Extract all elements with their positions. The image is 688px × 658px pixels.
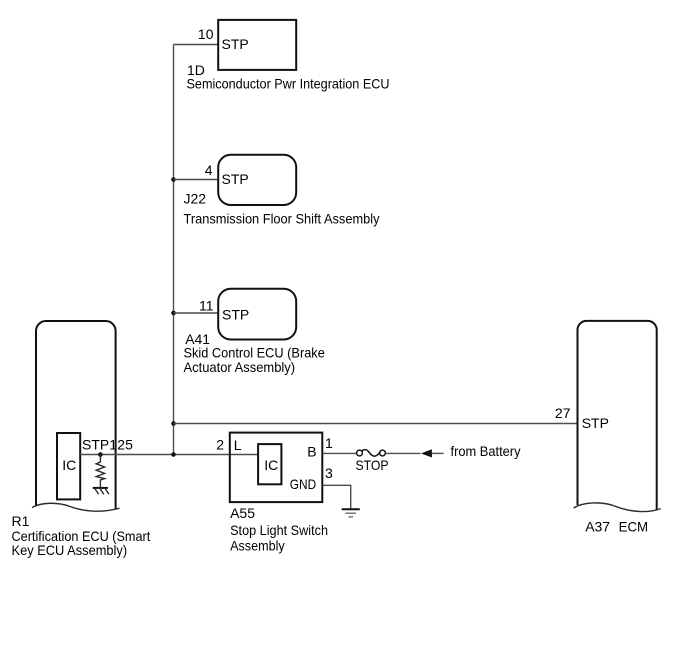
ECU block A41 Skid Control ECU (184, 289, 325, 375)
junction node bus to main wire (171, 452, 176, 457)
svg-text:4: 4 (205, 162, 213, 178)
svg-text:STP1: STP1 (82, 437, 117, 453)
svg-text:2: 2 (216, 436, 224, 452)
wire GND pin 3 to earth ground (322, 485, 350, 508)
IC block inside A55 (258, 444, 281, 484)
svg-text:1: 1 (325, 435, 333, 451)
junction node resistor tap (98, 452, 103, 457)
wire vertical STP bus (173, 45, 175, 455)
svg-text:from Battery: from Battery (451, 443, 521, 459)
svg-text:Assembly: Assembly (230, 537, 285, 553)
svg-text:27: 27 (555, 405, 571, 421)
wire to 1D pin 10 (174, 44, 219, 46)
svg-text:STP: STP (222, 36, 249, 52)
wire fuse to battery arrow (386, 452, 421, 454)
svg-text:Key ECU Assembly): Key ECU Assembly) (12, 542, 128, 558)
switch block A55 Stop Light Switch Assembly (216, 433, 333, 554)
svg-text:J22: J22 (184, 190, 207, 206)
svg-text:A37: A37 (585, 519, 610, 535)
ECU block R1 Certification ECU outline (12, 321, 151, 558)
IC block inside R1 (57, 433, 80, 499)
svg-text:STOP: STOP (356, 457, 389, 473)
svg-text:A55: A55 (230, 505, 255, 521)
svg-text:STP: STP (582, 415, 609, 431)
svg-text:25: 25 (117, 437, 133, 453)
svg-text:Stop Light Switch: Stop Light Switch (230, 522, 328, 538)
resistor internal pull-down in R1 (96, 455, 104, 488)
svg-text:Semiconductor Pwr Integration: Semiconductor Pwr Integration ECU (187, 76, 390, 92)
ECU block 1D Semiconductor Pwr Integration ECU (187, 20, 390, 92)
junction node at J22 tap (171, 177, 176, 182)
svg-text:Actuator Assembly): Actuator Assembly) (184, 359, 296, 375)
wire to J22 pin 4 (174, 179, 219, 181)
fuse STOP (356, 450, 389, 473)
wire B pin to fuse (322, 452, 356, 454)
svg-text:Transmission Floor Shift Assem: Transmission Floor Shift Assembly (184, 211, 380, 227)
svg-text:STP: STP (222, 306, 249, 322)
svg-text:ECM: ECM (619, 519, 649, 535)
junction node at A41 tap (171, 311, 176, 316)
wire to ECM pin 27 (174, 423, 579, 425)
svg-text:B: B (307, 444, 316, 460)
wire to A41 pin 11 (174, 312, 219, 314)
svg-text:Skid Control ECU (Brake: Skid Control ECU (Brake (184, 344, 325, 360)
chassis ground in R1 (93, 488, 109, 494)
svg-text:11: 11 (199, 297, 214, 313)
ECM block A37 outline (574, 321, 661, 535)
connector J22 Transmission Floor Shift Assembly (184, 155, 380, 227)
svg-text:IC: IC (264, 457, 278, 473)
svg-text:3: 3 (325, 465, 333, 481)
svg-text:IC: IC (62, 457, 76, 473)
junction node at ECM tap (171, 421, 176, 426)
svg-text:GND: GND (290, 476, 316, 492)
svg-text:L: L (234, 437, 242, 453)
svg-text:10: 10 (198, 26, 214, 42)
arrow from Battery (421, 443, 521, 459)
wire main STP net from R1 IC to A55 internal IC (80, 454, 258, 456)
earth ground (342, 509, 360, 517)
svg-text:STP: STP (222, 171, 249, 187)
svg-text:R1: R1 (12, 513, 30, 529)
